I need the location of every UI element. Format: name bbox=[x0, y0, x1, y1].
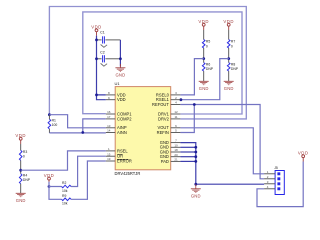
svg-text:R3: R3 bbox=[23, 150, 27, 154]
connector J5 pin 3 bbox=[264, 183, 275, 185]
junction PAD bbox=[194, 160, 197, 163]
svg-text:R4: R4 bbox=[23, 173, 27, 177]
svg-text:18: 18 bbox=[174, 148, 178, 152]
ground GND bus bbox=[195, 184, 197, 188]
wire VDD vertical to U1 VDD pins bbox=[97, 36, 106, 100]
pin 7 GND right bbox=[171, 142, 181, 144]
svg-text:R1: R1 bbox=[52, 119, 56, 123]
svg-text:0: 0 bbox=[231, 45, 233, 49]
svg-text:DNP: DNP bbox=[206, 67, 214, 71]
pin 20 GND right bbox=[171, 156, 181, 158]
pin 21 PAD right bbox=[171, 160, 181, 162]
svg-text:R5: R5 bbox=[206, 39, 210, 43]
svg-text:C2: C2 bbox=[100, 51, 105, 55]
junction C2 left bbox=[95, 57, 98, 60]
junction R3/R4 RSEL bbox=[19, 169, 22, 172]
pin 4 REFOUT right bbox=[171, 104, 181, 106]
svg-text:DNP: DNP bbox=[23, 178, 31, 182]
wire REFOUT/REFIN tie bbox=[180, 105, 194, 133]
junction COMP2/AINN bbox=[81, 131, 84, 134]
svg-text:16: 16 bbox=[107, 110, 111, 114]
svg-text:R9: R9 bbox=[62, 194, 66, 198]
svg-text:DNP: DNP bbox=[231, 67, 239, 71]
wire PAD pin21 bbox=[180, 160, 195, 162]
svg-text:17: 17 bbox=[107, 115, 111, 119]
svg-text:GND: GND bbox=[16, 198, 26, 203]
svg-text:GND: GND bbox=[224, 86, 234, 91]
power VDD chain R5 bbox=[202, 23, 205, 30]
resistor R9 10k bbox=[62, 198, 71, 201]
svg-text:AINN: AINN bbox=[117, 130, 127, 135]
connector J5 pin 1 bbox=[264, 173, 275, 175]
junction VDD/R2 bbox=[48, 185, 51, 188]
pin 18 GND right bbox=[171, 151, 181, 153]
svg-text:VDD: VDD bbox=[223, 19, 234, 24]
svg-text:R7: R7 bbox=[231, 39, 235, 43]
ground GND below C2 bbox=[119, 64, 121, 68]
svg-text:PAD: PAD bbox=[161, 159, 169, 164]
junction GND18 bbox=[194, 151, 197, 154]
wire outer loop DRV2 to R1/AINP net bbox=[49, 7, 246, 119]
resistor R8 DNP bbox=[227, 63, 230, 72]
svg-text:DRV2: DRV2 bbox=[158, 116, 170, 121]
capacitor C1 bbox=[97, 39, 102, 41]
pin 14 AINN left bbox=[106, 132, 115, 134]
pin 2 RSEL1 right bbox=[171, 99, 181, 101]
wire GND pin18 bbox=[180, 151, 195, 153]
pin 19 ERROR left bbox=[106, 160, 115, 162]
svg-text:DRV425RTJR: DRV425RTJR bbox=[115, 171, 141, 176]
wire C1/C2 right leads to GND bbox=[119, 40, 121, 67]
resistor R6 DNP bbox=[202, 63, 205, 72]
junction R5/R6 bbox=[202, 57, 205, 60]
svg-text:VDD: VDD bbox=[44, 173, 55, 178]
resistor R4 DNP bbox=[19, 174, 22, 184]
junction REFOUT tie bbox=[193, 103, 196, 106]
junction C2 right bbox=[119, 57, 122, 60]
svg-text:RSEL: RSEL bbox=[117, 148, 128, 153]
power VDD chain R7 bbox=[227, 23, 230, 30]
pin 11 DRV2 right bbox=[171, 118, 181, 120]
pin 5 REFIN right bbox=[171, 132, 181, 134]
junction C1 left bbox=[95, 39, 98, 42]
wire R9 to ERROR pin bbox=[71, 161, 106, 199]
pin 6 VOUT right bbox=[171, 127, 181, 129]
junction dot RSEL1 stub bbox=[180, 98, 183, 101]
pin 13 AINP left bbox=[106, 127, 115, 129]
svg-text:J5: J5 bbox=[274, 166, 278, 170]
svg-text:U1: U1 bbox=[115, 81, 121, 86]
wire RSEL net from R3/R4 junction bbox=[21, 151, 106, 170]
svg-text:VDD: VDD bbox=[198, 19, 209, 24]
wire VDD to J5 pin4 bbox=[257, 162, 303, 207]
wire AINN row from R1 bottom bbox=[49, 132, 105, 134]
resistor R2 10k bbox=[62, 185, 71, 188]
svg-text:14: 14 bbox=[107, 129, 111, 133]
connector J5 pin 2 bbox=[264, 178, 275, 180]
svg-text:COMP2: COMP2 bbox=[117, 116, 132, 121]
pin 15 OR left bbox=[106, 155, 115, 157]
wire R1 top jog to AINP bbox=[49, 115, 105, 128]
power VDD top-left bbox=[95, 29, 98, 36]
svg-text:R8: R8 bbox=[231, 62, 235, 66]
wire inner loop DRV1 to COMP1 net bbox=[83, 12, 242, 114]
wire GND pin10 bbox=[180, 146, 195, 148]
wire R7/R8 junction to RSEL1 bbox=[180, 59, 228, 100]
svg-text:VDD: VDD bbox=[91, 25, 102, 30]
power VDD right bbox=[302, 155, 305, 162]
svg-text:C1: C1 bbox=[100, 31, 105, 35]
ground GND chain R6 bbox=[199, 81, 209, 85]
junction R1 top bbox=[48, 113, 51, 116]
power VDD bottom-left bbox=[48, 177, 51, 184]
wire VOUT to J5 pin1 bbox=[180, 128, 264, 174]
junction GND20 bbox=[194, 155, 197, 158]
pin 17 COMP2 left bbox=[106, 118, 115, 120]
svg-text:19: 19 bbox=[107, 157, 111, 161]
pin 9 VDD left bbox=[106, 99, 115, 101]
pin 3 RSEL0 right bbox=[171, 94, 181, 96]
svg-text:REFIN: REFIN bbox=[157, 130, 169, 135]
svg-text:VDD: VDD bbox=[117, 97, 126, 102]
svg-text:20: 20 bbox=[174, 153, 178, 157]
svg-text:VDD: VDD bbox=[298, 151, 309, 156]
wire VDD to R2/R9 bbox=[49, 182, 62, 200]
ground GND chain R8 bbox=[224, 81, 234, 85]
wire R5/R6 junction to RSEL0 bbox=[180, 59, 203, 95]
wire COMP2 down to AINN row bbox=[83, 119, 106, 133]
svg-text:100: 100 bbox=[52, 123, 58, 127]
svg-text:GND: GND bbox=[191, 194, 201, 199]
svg-text:GND: GND bbox=[115, 73, 125, 78]
power VDD left bbox=[19, 137, 22, 144]
junction R7/R8 bbox=[227, 57, 230, 60]
pin 16 COMP1 left bbox=[106, 113, 115, 115]
resistor R1 100 bbox=[48, 119, 51, 129]
svg-text:0: 0 bbox=[23, 155, 25, 159]
ground GND left chain bbox=[16, 193, 26, 197]
junction GND bus bottom bbox=[194, 183, 197, 186]
capacitor C2 bbox=[97, 58, 102, 60]
svg-text:10k: 10k bbox=[62, 189, 68, 193]
svg-text:0: 0 bbox=[206, 45, 208, 49]
pin 12 DRV1 right bbox=[171, 113, 181, 115]
svg-text:REFOUT: REFOUT bbox=[152, 102, 169, 107]
pin 10 GND right bbox=[171, 146, 181, 148]
pin 8 VDD left bbox=[106, 94, 115, 96]
svg-text:21: 21 bbox=[174, 158, 178, 162]
svg-text:10k: 10k bbox=[62, 202, 68, 206]
wire R2 to OR pin bbox=[71, 156, 106, 186]
connector J5 pin 4 bbox=[264, 188, 275, 190]
svg-text:R2: R2 bbox=[62, 181, 66, 185]
svg-text:VDD: VDD bbox=[15, 133, 26, 138]
junction GND10 bbox=[194, 146, 197, 149]
svg-text:GND: GND bbox=[199, 86, 209, 91]
svg-text:11: 11 bbox=[174, 115, 177, 119]
resistor R5 0 bbox=[203, 30, 205, 40]
resistor R7 0 bbox=[228, 30, 230, 40]
svg-text:12: 12 bbox=[174, 110, 178, 114]
pin 1 RSEL left bbox=[106, 150, 115, 152]
svg-text:10: 10 bbox=[174, 143, 178, 147]
wire GND bus bbox=[180, 143, 264, 185]
svg-text:13: 13 bbox=[107, 124, 111, 128]
svg-text:R6: R6 bbox=[206, 62, 210, 66]
wire GND pin20 bbox=[180, 156, 195, 158]
junction VDD pin8 bbox=[95, 94, 98, 97]
svg-text:15: 15 bbox=[107, 152, 111, 156]
connector J5 bbox=[275, 171, 284, 195]
op-amp U1 DRV425RTJR body bbox=[115, 87, 171, 170]
resistor R3 0 bbox=[20, 144, 22, 150]
wire REFOUT to J5 pin2 bbox=[180, 105, 264, 179]
